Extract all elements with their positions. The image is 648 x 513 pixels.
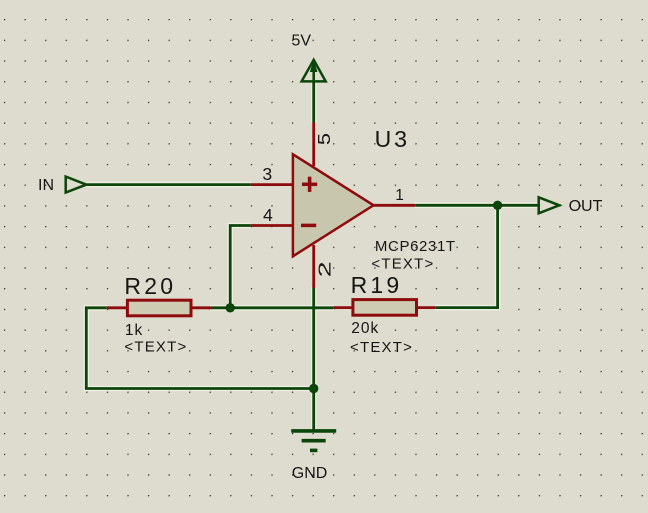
pin number 1: [395, 187, 404, 204]
resistor R20 right stub: [190, 306, 212, 309]
wire: 5V rail vertical: [312, 81, 315, 123]
svg-text:U3: U3: [375, 126, 410, 152]
wire: R20 right to R19 left: [211, 306, 333, 309]
wire: output node down to R19 right: [436, 205, 498, 307]
label OUT: [569, 198, 603, 215]
svg-text:R19: R19: [351, 272, 403, 298]
wire: IN to pin3: [86, 183, 251, 186]
net label 5V: [292, 32, 312, 49]
resistor R19 body: [353, 300, 417, 316]
op-amp U3 body: [293, 154, 374, 256]
junction node R20/feedback: [226, 303, 235, 312]
reference R19: [351, 272, 403, 298]
pin number 3: [262, 164, 272, 184]
value 20k: [351, 320, 379, 337]
label IN: [38, 177, 54, 194]
svg-text:GND: GND: [292, 465, 328, 482]
pin 4 stub: [251, 224, 293, 227]
wire halos: [86, 80, 539, 430]
resistor R19 left stub: [333, 306, 353, 309]
junction node ground rail: [309, 384, 318, 393]
svg-text:<TEXT>: <TEXT>: [124, 339, 187, 356]
wire: output to OUT terminal: [415, 204, 538, 207]
svg-text:5: 5: [315, 133, 334, 145]
op-amp minus marking: [301, 224, 316, 228]
svg-text:20k: 20k: [351, 320, 379, 337]
terminal IN: [66, 177, 87, 193]
junction node output: [493, 201, 502, 210]
resistor R19 right stub: [416, 306, 436, 309]
wire: R20 left down to ground rail: [86, 308, 313, 389]
reference U3: [375, 126, 410, 152]
resistor R20 body: [127, 300, 191, 316]
svg-text:1k: 1k: [125, 322, 143, 339]
terminal OUT: [539, 197, 560, 213]
label GND: [292, 465, 328, 482]
svg-text:4: 4: [263, 205, 273, 225]
svg-text:OUT: OUT: [569, 198, 603, 215]
wire: feedback node to pin4: [230, 226, 251, 308]
R20 property placeholder: [124, 339, 187, 356]
svg-text:R20: R20: [124, 273, 176, 299]
wire: pin2 down to ground junction: [312, 288, 315, 389]
pin 3 stub: [251, 183, 293, 186]
svg-text:MCP6231T: MCP6231T: [375, 238, 456, 255]
op-amp plus marking: [302, 177, 317, 192]
svg-text:<TEXT>: <TEXT>: [350, 339, 413, 356]
pin number 2: [315, 261, 335, 277]
wire: ground stem: [312, 389, 315, 431]
pin 1 stub: [373, 204, 415, 207]
R19 property placeholder: [350, 339, 413, 356]
svg-text:1: 1: [395, 187, 404, 204]
power symbol 5V: [302, 59, 326, 82]
svg-text:3: 3: [262, 164, 272, 184]
value MCP6231T: [375, 238, 456, 255]
value 1k: [125, 322, 143, 339]
svg-text:<TEXT>: <TEXT>: [371, 256, 434, 273]
reference R20: [124, 273, 176, 299]
U3 property placeholder: [371, 256, 434, 273]
op-amp U3 pin 5 (V+): [312, 123, 315, 167]
svg-text:5V: 5V: [292, 32, 312, 49]
ground: [291, 431, 336, 451]
resistor R20 left stub: [107, 306, 128, 309]
pin number 5: [315, 133, 334, 145]
svg-text:2: 2: [315, 261, 335, 277]
svg-text:IN: IN: [38, 177, 54, 194]
pin 2 stub: [312, 245, 315, 288]
pin number 4: [263, 205, 273, 225]
